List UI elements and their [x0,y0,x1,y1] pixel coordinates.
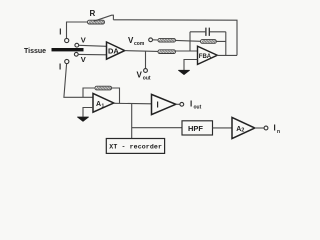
resistor R1 command input [158,38,176,42]
op-amp FBA [198,46,218,64]
resistor R [88,9,105,24]
svg-text:1: 1 [102,103,105,109]
svg-text:com: com [134,41,145,47]
svg-text:R: R [90,9,96,18]
node Vcom terminal [149,38,153,42]
svg-text:n: n [277,129,280,135]
svg-text:I: I [190,100,192,109]
svg-text:XT - recorder: XT - recorder [109,144,162,151]
filter HPF [182,121,213,135]
node I bottom label [59,63,61,72]
svg-text:FBA: FBA [199,54,212,60]
svg-text:HPF: HPF [188,124,203,133]
wire A1 output [114,102,152,105]
svg-text:A: A [96,101,101,108]
svg-text:2: 2 [241,128,244,134]
svg-text:V: V [81,35,86,44]
resistor R2 voltage input [158,50,176,54]
wire junction drop to recorder and HPF [132,104,182,139]
electrode I top terminal [65,38,69,42]
wire Vout drop [145,51,147,68]
tissue label [24,48,46,55]
node Vout label [137,71,151,82]
wire A2 output [255,127,264,129]
wire V bottom to DA [78,53,106,55]
node V bottom label [81,55,86,64]
wire I bottom to A1 [64,64,93,98]
svg-text:DA: DA [108,47,119,56]
ground FBA [179,70,190,74]
recorder XT [106,139,164,154]
switch S bypassing R [94,15,113,21]
wire Vcom to R1 [153,39,159,41]
wire HPF to A2 [213,127,233,129]
node Vout terminal [144,69,148,73]
node In terminal [264,126,268,130]
wire DA output [125,50,158,53]
wire FBA output [217,54,237,56]
wire Rf1 right leg [112,88,120,103]
op-amp A2 [232,117,255,138]
wire Rf to output vertical [216,32,226,56]
wire R1 to summing node [176,39,201,42]
op-amp DA [107,42,125,59]
svg-text:V: V [137,71,143,80]
tissue strip [52,48,84,51]
ground A1 [78,117,89,121]
wire R2 to FBA input [176,50,198,52]
svg-text:out: out [194,105,202,111]
node Iout label [190,100,202,111]
svg-text:I: I [59,63,61,72]
resistor Rf1 A1 feedback [95,86,112,90]
wire FBA ground input [184,60,198,71]
op-amp I monitor [152,94,176,114]
svg-text:V: V [81,55,86,64]
svg-text:I: I [157,101,159,110]
wire top-left vertical to current electrode [67,22,88,38]
svg-text:I: I [59,28,61,37]
node In label [274,124,281,135]
electrode V top terminal [75,43,79,47]
capacitor C feedback [190,28,226,36]
node V top label [81,35,86,44]
electrode V bottom terminal [74,52,78,56]
wire Rf1 left leg [83,88,95,97]
resistor Rf feedback [201,40,217,44]
wire V top to DA [79,45,107,46]
wire A1 ground input [83,108,93,117]
node Vcom label [128,36,145,47]
wire top feedback rail [113,20,237,56]
svg-text:Tissue: Tissue [24,48,46,55]
electrode I bottom terminal [65,59,69,63]
wire summing node vertical [189,32,191,51]
op-amp A1 [93,93,114,112]
svg-text:out: out [143,76,151,82]
node Iout terminal [180,102,184,106]
wire I monitor output [176,103,180,105]
node I top label [59,28,61,37]
svg-text:I: I [274,124,276,133]
